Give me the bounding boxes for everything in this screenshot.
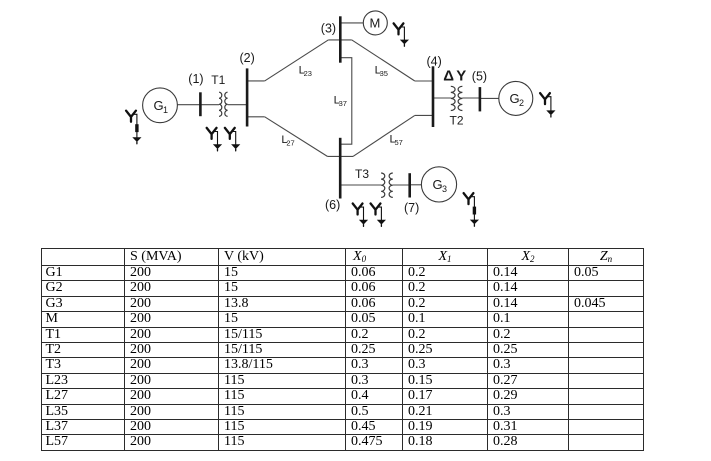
motor M <box>363 11 387 35</box>
wire bus3 to motor M <box>340 22 363 24</box>
ground symbol below T1 (primary) <box>207 128 222 151</box>
wire T3 to bus 7 <box>393 184 410 186</box>
transformer T1 <box>219 92 228 116</box>
wire line L35 <box>352 40 415 81</box>
svg-text:Δ: Δ <box>443 67 454 84</box>
wire line L57 <box>353 115 415 156</box>
label L35 <box>375 65 388 79</box>
ground symbol below T3 (right) <box>371 204 386 227</box>
wire bus2 lower stub <box>247 116 265 118</box>
svg-text:(1): (1) <box>188 72 203 86</box>
label L23 <box>299 65 312 79</box>
bus 7 <box>408 173 411 197</box>
wire bus5 to G2 <box>480 97 499 99</box>
ground symbol right of G3 with neutral impedance <box>464 193 479 226</box>
svg-text:M: M <box>370 16 381 31</box>
svg-text:Y: Y <box>456 67 466 84</box>
power system one-line diagram <box>0 0 711 248</box>
svg-text:T2: T2 <box>450 114 464 128</box>
label L27 <box>281 134 294 148</box>
wire bus6 to T3 <box>340 184 381 186</box>
bus 3 <box>339 16 342 62</box>
wire top horizontal at bus 3 <box>328 39 352 41</box>
svg-text:(7): (7) <box>404 201 419 215</box>
wire bus7 to G3 <box>410 184 422 186</box>
wire bus4 lower stub <box>415 114 433 116</box>
wire G1 to T1 <box>178 104 220 106</box>
bus 2 <box>246 68 249 126</box>
svg-text:(6): (6) <box>325 198 340 212</box>
wire T2 to bus 5 <box>462 97 480 99</box>
svg-text:23: 23 <box>304 69 312 78</box>
svg-text:(2): (2) <box>240 51 255 65</box>
svg-text:27: 27 <box>286 139 294 148</box>
transformer T3 <box>381 173 393 197</box>
label L37 <box>334 94 347 108</box>
ground symbol below T1 (secondary) <box>225 128 240 151</box>
generator G3 <box>421 167 456 202</box>
ground symbol right of G2 <box>540 93 555 117</box>
wire bus2 upper stub <box>247 80 265 82</box>
data table <box>41 248 644 451</box>
wire bus4 to T2 <box>433 97 451 99</box>
wire line L37 <box>340 58 352 145</box>
label L57 <box>390 134 403 148</box>
svg-text:3: 3 <box>442 184 447 194</box>
ground symbol below T3 (left) <box>353 204 368 227</box>
wire bus4 upper stub <box>415 80 433 82</box>
svg-text:35: 35 <box>380 69 388 78</box>
svg-text:57: 57 <box>395 138 403 147</box>
ground symbol left of G1 with neutral impedance <box>126 111 141 144</box>
svg-text:2: 2 <box>519 98 524 108</box>
wire T1 to bus 2 <box>228 104 248 106</box>
bus 1 <box>199 92 202 116</box>
svg-text:37: 37 <box>339 99 347 108</box>
svg-text:T1: T1 <box>211 73 225 87</box>
wire line L27 <box>265 117 328 157</box>
svg-text:1: 1 <box>163 105 168 115</box>
bus 6 <box>339 138 342 199</box>
bus 4 <box>432 66 435 127</box>
ground symbol right of motor M <box>394 23 409 46</box>
svg-text:T3: T3 <box>355 167 369 181</box>
generator G1 <box>143 88 178 123</box>
svg-text:(5): (5) <box>472 70 487 84</box>
svg-text:(4): (4) <box>427 54 442 68</box>
generator G2 <box>499 81 533 115</box>
svg-text:(3): (3) <box>321 21 336 35</box>
wire bottom horizontal at bus 6 <box>327 155 353 157</box>
bus 5 <box>479 87 482 111</box>
transformer T2 <box>451 86 463 110</box>
wire line L23 <box>265 40 329 81</box>
